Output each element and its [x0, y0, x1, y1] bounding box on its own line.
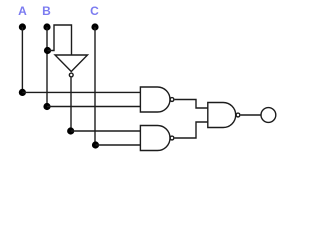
- junction B lower: [43, 103, 50, 110]
- wire inverter output to gate U3 input 1: [71, 130, 141, 132]
- wire B to gate U2 input 2: [47, 106, 140, 108]
- wire gate U3 output to gate U4 input 2: [175, 122, 208, 138]
- wire B loop to inverter input: [48, 25, 72, 55]
- input terminal B: [43, 23, 50, 30]
- nand gate U3: [140, 126, 174, 151]
- wire gate U4 output: [241, 114, 261, 116]
- junction B upper: [44, 47, 51, 54]
- wire B vertical: [46, 27, 48, 107]
- svg-text:C: C: [90, 4, 99, 18]
- junction A: [19, 89, 26, 96]
- wire inverter output vertical: [70, 78, 72, 131]
- inverter U1: [55, 55, 88, 77]
- wire A to gate U2 input 1: [22, 91, 140, 93]
- junction inverter output: [67, 127, 74, 134]
- nand gate U2: [140, 87, 174, 112]
- wire A vertical: [21, 27, 23, 92]
- junction C: [92, 141, 99, 148]
- wire C to gate U3 input 2: [96, 144, 141, 146]
- input terminal A: [19, 23, 26, 30]
- output terminal: [261, 108, 276, 123]
- input terminal C: [91, 23, 98, 30]
- svg-text:B: B: [42, 4, 51, 18]
- wire gate U2 output to gate U4 input 1: [175, 100, 208, 109]
- nand gate U4: [208, 103, 240, 128]
- wire C vertical: [94, 27, 96, 145]
- svg-text:A: A: [18, 4, 27, 18]
